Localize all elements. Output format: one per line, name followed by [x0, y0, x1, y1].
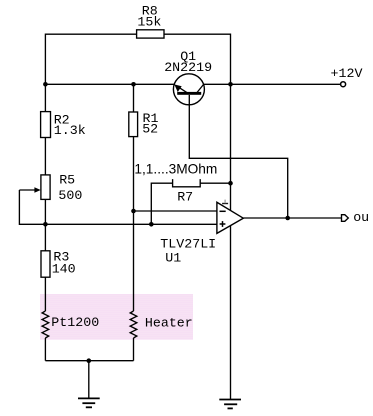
node bottom / ground [87, 358, 92, 363]
svg-text:U1: U1 [165, 251, 181, 266]
terminal +12V [341, 82, 346, 87]
ground 1 [78, 398, 100, 407]
svg-text:1,1....3MOhm: 1,1....3MOhm [134, 162, 217, 177]
svg-text:ou: ou [353, 210, 369, 225]
terminal ou [342, 215, 349, 222]
resistor R1 body [129, 112, 138, 137]
wire left rail Pt1200 to bottom [44, 338, 46, 361]
resistor R8 body [137, 30, 164, 38]
wire Heater to bottom [133, 338, 135, 361]
potentiometer R5 body [41, 175, 50, 200]
resistor R2 body [41, 112, 51, 138]
ground 2 [219, 400, 241, 409]
resistor R7 body (open top) [173, 179, 201, 187]
wire op-amp noninverting input [19, 190, 217, 224]
wire main horizontal to transistor [45, 83, 174, 85]
highlight region Pt1200/Heater [40, 294, 193, 340]
node rail-left / main [43, 82, 48, 87]
resistor Pt1200 zigzag [42, 311, 49, 338]
wire transistor base feedback [189, 95, 287, 218]
wire R1 column down to Heater [133, 137, 135, 311]
node collector / +12V rail [228, 82, 233, 87]
svg-text:TLV27LI: TLV27LI [160, 237, 216, 252]
svg-text:500: 500 [58, 188, 82, 203]
wire R5 wiper [19, 189, 36, 191]
node R7 left / noninverting input [149, 222, 154, 227]
svg-text:+12V: +12V [331, 66, 363, 81]
wire R7 left lead [151, 183, 172, 224]
wire op-amp inverting input [134, 210, 217, 212]
op-amp U1 TLV27LI [217, 200, 243, 234]
svg-text:140: 140 [52, 261, 76, 276]
node R1 column / inverting input [131, 209, 136, 214]
svg-text:R5: R5 [59, 172, 75, 187]
svg-text:1.3k: 1.3k [54, 123, 86, 138]
svg-text:R7: R7 [177, 189, 193, 204]
svg-text:Heater: Heater [145, 315, 193, 330]
svg-text:Pt1200: Pt1200 [51, 315, 99, 330]
wire bottom joining [45, 360, 133, 362]
wire transistor to +12V terminal [203, 83, 340, 85]
resistor Heater zigzag [130, 311, 137, 338]
wire left rail R5 to R3 [44, 199, 46, 250]
wire left rail R2 to R5 [44, 138, 46, 175]
node wiper / rail-left [43, 222, 48, 227]
wire top rail left segment [45, 34, 136, 111]
svg-text:52: 52 [142, 122, 158, 137]
resistor R3 body [41, 251, 50, 277]
wire R1 top [133, 84, 135, 112]
svg-text:15k: 15k [137, 15, 161, 30]
node R1 / main [131, 82, 136, 87]
wire to ground 1 [88, 361, 90, 398]
potentiometer R5 wiper arrow [34, 187, 40, 193]
node R7 right / rail [228, 181, 233, 186]
wire op-amp output [243, 217, 341, 219]
node feedback / output [285, 216, 290, 221]
transistor Q1 2N2219 [173, 74, 204, 105]
wire top rail right segment [164, 34, 231, 210]
wire op-amp V- to ground 2 [230, 226, 232, 400]
svg-text:2N2219: 2N2219 [164, 60, 212, 75]
wire R7 right lead [200, 182, 230, 184]
wire left rail R3 to Pt1200 [44, 277, 46, 311]
junction node dots [43, 82, 290, 363]
